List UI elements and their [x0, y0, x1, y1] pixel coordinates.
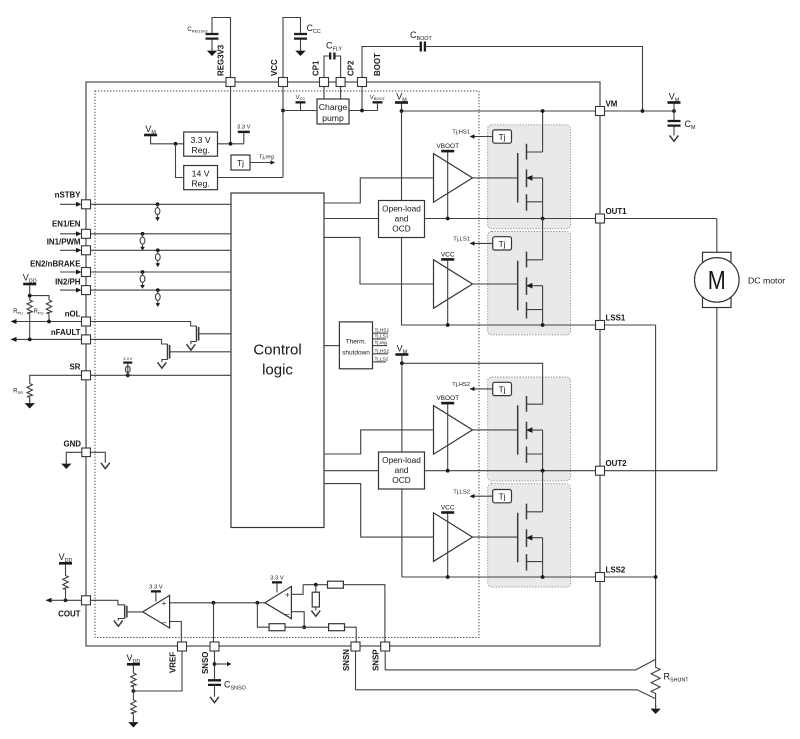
- resistor RSHUNT: [651, 659, 660, 698]
- wire: driver1 input: [324, 178, 434, 203]
- svg-text:and: and: [395, 465, 409, 475]
- current source IN1: [155, 250, 160, 267]
- svg-text:COUT: COUT: [58, 610, 81, 619]
- wire: SR external to RSR: [30, 375, 82, 383]
- arrow Tj,LS2: [474, 495, 493, 497]
- wire: SNSO external: [214, 651, 216, 680]
- wire: gate HS2: [473, 429, 518, 431]
- pin OUT1: [596, 214, 605, 223]
- Tj box HS1: [493, 130, 512, 143]
- svg-text:Tj,reg: Tj,reg: [375, 340, 388, 346]
- wire: driver4 input: [324, 484, 434, 537]
- svg-text:pump: pump: [322, 113, 344, 123]
- node VM rail left: [400, 109, 404, 113]
- wire: sense amp minus lead: [291, 612, 304, 628]
- pin CP1: [320, 78, 329, 87]
- resistor pull-up COUT: [65, 565, 67, 576]
- svg-text:VBOOT: VBOOT: [436, 143, 459, 150]
- pin VREF: [178, 642, 187, 651]
- SR pullup current source to 3.3V: [127, 364, 129, 376]
- svg-text:3.3 V: 3.3 V: [190, 135, 210, 145]
- pin OUT2: [596, 466, 605, 475]
- wire: CP2 pin to charge pump box: [340, 87, 342, 100]
- pin nFAULT: [82, 335, 91, 344]
- svg-text:Tj,LS2: Tj,LS2: [453, 489, 470, 495]
- wire: CP2 to CFLY: [335, 56, 341, 82]
- wire: nFAULT output line: [12, 338, 82, 340]
- svg-text:SR: SR: [70, 363, 81, 372]
- Tj sensor box (regulators): [231, 155, 250, 170]
- ground below CSNSO: [210, 697, 219, 703]
- wire: sense amp plus lead: [291, 585, 303, 595]
- supply bar VM (bridge1 rail): [401, 104, 403, 112]
- svg-text:3.3 V: 3.3 V: [270, 575, 284, 581]
- svg-text:Tj,LS2: Tj,LS2: [375, 356, 389, 362]
- pin CP2: [336, 78, 345, 87]
- wire: control to therm shutdown: [324, 345, 339, 347]
- svg-text:CFLY: CFLY: [326, 41, 342, 53]
- svg-text:CCC: CCC: [307, 23, 321, 35]
- arrow Tj,HS2: [474, 388, 493, 390]
- svg-text:CM: CM: [685, 119, 697, 131]
- svg-text:CP1: CP1: [312, 60, 321, 76]
- gate driver HS2: [434, 406, 473, 455]
- wire: nSTBY input: [60, 203, 77, 205]
- wire: VM rail down to OCD1: [401, 111, 403, 201]
- node CBOOT return: [641, 109, 645, 113]
- wire: driver3 input: [324, 430, 434, 454]
- shunt sense taps: [385, 659, 655, 670]
- supply bar VDD (VREF divider): [127, 663, 140, 666]
- resistor (SNSN input): [329, 624, 345, 631]
- svg-text:VDD: VDD: [23, 273, 37, 285]
- ground below C_CC: [295, 47, 305, 56]
- wire: IN1/PWM input: [60, 249, 77, 251]
- wire: REG3V3 pin to C_REG3V3 cap: [212, 18, 231, 83]
- pin LSS1: [596, 321, 605, 330]
- svg-text:Tj: Tj: [237, 158, 244, 168]
- svg-text:RPU: RPU: [13, 309, 23, 315]
- wire: COUT output line: [47, 599, 82, 601]
- wire: top feedback node line: [303, 584, 327, 586]
- svg-text:Tj,HS2: Tj,HS2: [375, 348, 390, 354]
- svg-text:and: and: [395, 214, 409, 224]
- wire: control to open-load/OCD 2: [324, 470, 379, 472]
- wire: BOOT pin down: [361, 87, 363, 111]
- svg-text:14 V: 14 V: [192, 168, 210, 178]
- svg-text:SNSO: SNSO: [201, 652, 210, 674]
- node LSS2 to shunt: [654, 575, 658, 579]
- pin EN1/EN: [82, 229, 91, 238]
- DC motor terminal top: [703, 252, 732, 262]
- svg-text:M: M: [708, 265, 726, 295]
- svg-text:Tj,HS1: Tj,HS1: [375, 328, 390, 334]
- svg-text:CSNSO: CSNSO: [224, 680, 246, 692]
- pin VCC: [279, 78, 288, 87]
- wire: OCD2 to OUT2 rail: [425, 470, 717, 472]
- wire: SNSO internal: [213, 603, 215, 642]
- DC motor circle: [695, 258, 740, 303]
- node SNSO branch: [212, 601, 216, 605]
- wire: vcc rail to charge pump: [283, 110, 317, 112]
- svg-text:Tj,LS1: Tj,LS1: [375, 334, 389, 340]
- wire: VREF external: [133, 651, 182, 691]
- node BOOT: [360, 109, 364, 113]
- pin EN2/nBRAKE: [82, 268, 91, 277]
- svg-text:IN1/PWM: IN1/PWM: [47, 238, 81, 247]
- pin REG3V3: [226, 78, 235, 87]
- wire: comparator minus to VREF pin: [170, 622, 182, 643]
- svg-text:–: –: [162, 618, 167, 627]
- wire: nFAULT internal: [91, 339, 168, 344]
- svg-text:Tj: Tj: [499, 239, 506, 249]
- wire: EN1/EN input: [60, 233, 77, 235]
- pin nOL: [82, 317, 91, 326]
- svg-text:VBOOT: VBOOT: [436, 395, 459, 402]
- node driver4 to LSS2: [446, 575, 450, 579]
- svg-text:VBOOT: VBOOT: [370, 95, 386, 101]
- control logic block: [231, 193, 324, 528]
- wire: CP1 to CFLY: [324, 56, 330, 82]
- wire: VM rail down to OCD2: [401, 363, 403, 452]
- Tj box LS1: [493, 237, 512, 250]
- svg-text:EN2/nBRAKE: EN2/nBRAKE: [30, 260, 80, 269]
- wire: VCC pin down to charge pump rail: [282, 87, 284, 178]
- supply 3.3V comparator: [155, 593, 157, 602]
- pin SNSN: [351, 642, 360, 651]
- supply bar 3.3V internal: [243, 133, 245, 144]
- wire: SNSP pin down: [384, 651, 386, 670]
- gate driver HS1: [434, 154, 473, 203]
- current source nSTBY: [155, 204, 160, 221]
- wire: SNSN pin down: [355, 651, 357, 689]
- wire: GND right internal: [90, 452, 105, 463]
- svg-text:Tj: Tj: [499, 384, 506, 394]
- node divider tap: [314, 583, 318, 587]
- wire: CBOOT to VM rail: [425, 47, 642, 112]
- svg-text:Tj: Tj: [499, 132, 506, 142]
- svg-text:3.3 V: 3.3 V: [123, 356, 133, 361]
- svg-text:CREG3V3: CREG3V3: [187, 27, 208, 33]
- wire: RPU1 to nFAULT line: [29, 314, 31, 340]
- resistor divider to ground: [312, 592, 319, 607]
- resistor (SNSP input): [328, 581, 344, 588]
- open-load and OCD block 2: [379, 452, 425, 489]
- svg-text:VREF: VREF: [169, 652, 178, 673]
- supply bar VM (bridge2 rail): [401, 356, 403, 364]
- wire: VM rail bridge2 to HS2 drain: [402, 363, 543, 404]
- node EN2 pulldown: [141, 270, 145, 274]
- svg-text:Reg.: Reg.: [191, 179, 209, 189]
- pin nSTBY: [82, 200, 91, 209]
- wire: SR internal: [91, 374, 231, 376]
- wire: VDD to pullup resistors: [30, 285, 49, 300]
- thermal stub Tj,LS2: [373, 361, 387, 363]
- wire: HS1 drain to VM: [542, 111, 544, 152]
- sense amplifier: [265, 586, 292, 618]
- svg-text:Tj,HS1: Tj,HS1: [452, 130, 470, 136]
- svg-text:RSR: RSR: [13, 389, 23, 395]
- svg-text:+: +: [162, 599, 167, 608]
- ground below C_REG3V3: [207, 47, 217, 56]
- svg-text:–: –: [285, 609, 290, 618]
- svg-text:nFAULT: nFAULT: [51, 328, 81, 337]
- power stage gray box LS1: [488, 232, 571, 335]
- wire: EN2/nBRAKE input: [60, 271, 77, 273]
- wire: HS1 source to OUT1: [542, 202, 544, 219]
- 14V regulator block: [184, 166, 218, 190]
- power stage gray box HS2: [488, 377, 571, 481]
- wire: IN2/PH input: [60, 289, 77, 291]
- wire: LS2 drain to OUT2: [542, 471, 544, 512]
- capacitor CFLY: [330, 53, 334, 60]
- svg-text:Open-load: Open-load: [382, 204, 421, 214]
- svg-text:CBOOT: CBOOT: [410, 30, 432, 42]
- svg-text:Control: Control: [253, 342, 301, 359]
- power MOSFET HS2: [518, 396, 543, 463]
- svg-text:Reg.: Reg.: [191, 145, 209, 155]
- node SNSO tap: [213, 662, 217, 666]
- power MOSFET HS1: [518, 144, 543, 211]
- wire: VCC pin to C_CC cap: [283, 18, 301, 83]
- wire: GND left external: [66, 452, 82, 463]
- node VM cap junction: [672, 109, 676, 113]
- arrow Tj,HS1: [474, 136, 493, 138]
- supply VBOOT driver1: [447, 152, 449, 218]
- thermal stub Tj,LS1: [373, 338, 387, 340]
- wire: gate LS1: [473, 283, 518, 285]
- pin GND: [82, 448, 91, 457]
- wire: nOL internal: [91, 322, 197, 327]
- thermal stub Tj,reg: [373, 345, 388, 347]
- arrow Tj,LS1: [474, 242, 493, 244]
- supply 3.3V sense amp: [276, 584, 278, 593]
- ground below RSHUNT: [655, 699, 657, 708]
- svg-text:GND: GND: [63, 440, 81, 449]
- svg-text:VM: VM: [606, 100, 618, 109]
- svg-text:LSS2: LSS2: [606, 566, 626, 575]
- wire: OUT1 to motor: [716, 219, 718, 253]
- 3.3V regulator block: [184, 132, 218, 156]
- wire: VM bar to regulators: [151, 136, 184, 144]
- current source IN2: [155, 290, 160, 307]
- wire: RPU2 to nOL line: [48, 314, 50, 322]
- node minus feedback: [302, 625, 306, 629]
- pin IN2/PH: [82, 286, 91, 295]
- inner dashed boundary: [95, 91, 479, 638]
- svg-text:OUT1: OUT1: [606, 207, 628, 216]
- pin IN1/PWM: [82, 246, 91, 255]
- wire: VM rail: [402, 110, 675, 112]
- current source EN2: [140, 272, 145, 289]
- svg-text:3.3 V: 3.3 V: [149, 584, 163, 590]
- node IN1 pulldown: [156, 248, 160, 252]
- node driver1 to OUT1: [446, 217, 450, 221]
- svg-text:Therm.: Therm.: [346, 339, 367, 346]
- wire: OCD1 to OUT1 rail: [425, 218, 717, 220]
- ground below CM: [670, 136, 679, 142]
- Tj box LS2: [493, 490, 512, 503]
- supply bar VDD (COUT pull-up): [59, 562, 72, 565]
- svg-text:3.3 V: 3.3 V: [237, 124, 251, 130]
- svg-text:RPU: RPU: [34, 309, 44, 315]
- supply bar VDD (pull-ups): [23, 283, 36, 286]
- ground below VREF divider: [128, 719, 138, 728]
- svg-text:shutdown: shutdown: [342, 350, 370, 357]
- resistor RSR: [27, 384, 32, 398]
- supply bar VBOOT (charge pump): [377, 104, 379, 111]
- resistor RPU1: [27, 300, 32, 314]
- arrow SNSO output: [215, 663, 228, 665]
- wire: REG3V3 pin down to 3.3V reg output: [230, 87, 232, 144]
- node VDD branch: [28, 294, 32, 298]
- wire: resistor to SNSN pin: [345, 627, 357, 642]
- wire: LS1 source to LSS1: [542, 310, 544, 325]
- pin SR: [82, 371, 91, 380]
- svg-text:CP2: CP2: [347, 60, 356, 76]
- node driver3 to OUT2: [446, 469, 450, 473]
- svg-text:LSS1: LSS1: [606, 314, 626, 323]
- node regulator input branch: [174, 142, 178, 146]
- svg-text:+: +: [285, 591, 290, 600]
- wire: branch to 14V reg: [176, 144, 184, 178]
- transistor nOL open-drain: [196, 326, 198, 342]
- wire: OCD2 bottom to LSS2 rail: [402, 489, 656, 577]
- thermal stub Tj,HS2: [373, 353, 389, 355]
- svg-text:VCC: VCC: [296, 95, 306, 101]
- node VREF divider: [132, 689, 136, 693]
- svg-text:nOL: nOL: [65, 310, 81, 319]
- svg-text:REG3V3: REG3V3: [217, 44, 226, 76]
- thermal shutdown block: [339, 322, 372, 369]
- transistor nFAULT open-drain: [167, 344, 169, 360]
- node feedback branch: [256, 601, 260, 605]
- chip outer boundary: [86, 82, 600, 646]
- svg-text:Tj,LS1: Tj,LS1: [453, 237, 470, 243]
- svg-text:Tj,reg: Tj,reg: [259, 155, 274, 161]
- gate driver LS1: [434, 260, 473, 309]
- wire: CP1 pin to charge pump box: [323, 87, 325, 100]
- pin BOOT: [358, 78, 367, 87]
- wire: driver2 input: [324, 237, 434, 284]
- svg-text:Open-load: Open-load: [382, 455, 421, 465]
- wire: LSS rails to shunt: [655, 325, 657, 659]
- wire: resistor to SNSP pin: [343, 585, 385, 642]
- capacitor CBOOT: [421, 42, 425, 52]
- svg-text:RSHUNT: RSHUNT: [664, 672, 690, 684]
- capacitor CSNSO: [208, 680, 221, 685]
- power stage gray box HS1: [488, 125, 571, 229]
- wire: control to open-load/OCD 1: [324, 218, 379, 220]
- wire: 3.3V reg output rail: [218, 143, 244, 145]
- pin VM: [596, 107, 605, 116]
- charge pump block: [317, 99, 349, 124]
- svg-text:OCD: OCD: [392, 224, 410, 234]
- svg-text:SNSP: SNSP: [372, 650, 381, 672]
- ground below RSR: [29, 397, 31, 402]
- wire: 14V reg output to VCC rail: [218, 177, 284, 179]
- node nFAULT pullup: [28, 338, 32, 342]
- svg-text:VCC: VCC: [441, 251, 455, 258]
- power MOSFET LS1: [518, 252, 543, 319]
- gate driver LS2: [434, 513, 473, 562]
- wire: OCD1 bottom to LSS1 rail: [402, 238, 656, 326]
- pin COUT: [82, 596, 91, 605]
- svg-text:DC motor: DC motor: [748, 276, 785, 286]
- svg-text:logic: logic: [262, 362, 293, 379]
- supply bar VM (regulators): [144, 134, 157, 137]
- svg-text:SNSN: SNSN: [342, 649, 351, 671]
- wire: HS2 source to OUT2: [542, 454, 544, 471]
- supply VBOOT driver3: [447, 404, 449, 471]
- supply bar Vcc (charge pump input): [300, 104, 302, 111]
- svg-text:Tj: Tj: [499, 492, 506, 502]
- thermal stub Tj,HS1: [373, 332, 389, 334]
- supply bar VM (right, above CM): [673, 104, 675, 112]
- wire: charge pump output to VBOOT: [349, 110, 378, 112]
- supply VCC driver2: [447, 260, 449, 325]
- node 3.3V rail: [229, 142, 233, 146]
- resistor VREF upper: [132, 666, 134, 673]
- Tj box HS2: [493, 382, 512, 395]
- svg-text:IN2/PH: IN2/PH: [55, 278, 81, 287]
- svg-text:OUT2: OUT2: [606, 459, 628, 468]
- arrow Tj,reg output: [250, 162, 271, 164]
- pin SNSO: [210, 642, 219, 651]
- wire: feedback from output: [257, 603, 269, 627]
- svg-text:Tj,HS2: Tj,HS2: [452, 382, 470, 388]
- wire: COUT internal to comparator transistor: [91, 600, 125, 605]
- supply VCC driver4: [447, 514, 449, 578]
- resistor VREF lower: [132, 691, 134, 700]
- pin SNSP: [381, 642, 390, 651]
- svg-text:OCD: OCD: [392, 475, 410, 485]
- node nSTBY pulldown: [156, 202, 160, 206]
- svg-text:VCC: VCC: [441, 504, 455, 511]
- svg-text:nSTBY: nSTBY: [55, 191, 82, 200]
- wire: OUT2 to motor: [716, 308, 718, 471]
- node VCC internal: [281, 109, 285, 113]
- node nOL pullup: [47, 320, 51, 324]
- power MOSFET LS2: [518, 504, 543, 571]
- svg-text:BOOT: BOOT: [373, 53, 382, 76]
- wire: nOL output line: [12, 321, 82, 323]
- wire: BOOT pin up to CBOOT: [362, 47, 421, 83]
- node COUT pullup: [64, 598, 68, 602]
- svg-text:Charge: Charge: [319, 102, 348, 112]
- transistor COUT driver: [124, 605, 126, 619]
- DC motor terminal bottom: [703, 298, 732, 308]
- node EN1 pulldown: [141, 232, 145, 236]
- capacitor C_REG3V3: [206, 34, 219, 39]
- node SR pullup: [126, 373, 130, 377]
- power stage gray box LS2: [488, 484, 571, 587]
- svg-text:VCC: VCC: [270, 59, 279, 76]
- capacitor CM: [673, 111, 675, 121]
- capacitor C_CC: [294, 34, 307, 39]
- wire: comparator plus input line: [170, 602, 265, 604]
- wire: LS1 drain to OUT1: [542, 219, 544, 260]
- node IN2 pulldown: [156, 288, 160, 292]
- node driver2 to LSS1: [446, 323, 450, 327]
- current source EN1: [140, 234, 145, 251]
- comparator (COUT): [143, 595, 170, 628]
- resistor (feedback): [269, 624, 285, 631]
- wire: LS2 source to LSS2: [542, 562, 544, 577]
- svg-text:EN1/EN: EN1/EN: [52, 220, 81, 229]
- open-load and OCD block 1: [379, 201, 425, 238]
- wire: gate HS1: [473, 177, 518, 179]
